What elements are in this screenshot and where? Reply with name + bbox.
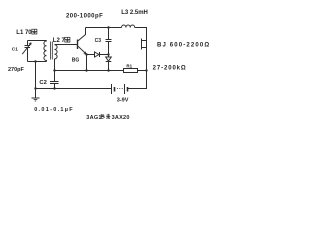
ground — [32, 89, 40, 102]
capacitor C1 — [22, 41, 31, 62]
svg-text:C3: C3 — [95, 38, 102, 44]
svg-text:L3 2.5mH: L3 2.5mH — [121, 10, 148, 16]
svg-text:270pF: 270pF — [8, 67, 25, 73]
svg-text:BJ 600-2200Ω: BJ 600-2200Ω — [157, 42, 210, 48]
wire mid rail — [55, 70, 124, 72]
wire ground rail — [36, 88, 112, 90]
label C3 — [95, 38, 102, 44]
label C2 — [39, 80, 46, 86]
node mid rail D2 — [107, 69, 109, 71]
inductor L2 — [55, 45, 58, 71]
svg-text:27-200kΩ: 27-200kΩ — [153, 65, 187, 71]
wire tank bottom — [28, 61, 47, 63]
node C2 bottom — [53, 87, 55, 89]
wire top rail right — [135, 28, 147, 39]
label L3 value — [121, 10, 148, 16]
node ground rail left — [34, 87, 36, 89]
wire top rail left — [86, 27, 122, 29]
transformer core — [51, 42, 53, 60]
svg-text:200-1000pF: 200-1000pF — [66, 14, 103, 20]
label battery value — [117, 97, 129, 103]
transistor BG — [78, 28, 87, 55]
label R1 value — [153, 65, 187, 71]
wire right rail down — [128, 71, 147, 89]
wire tank to ground rail — [35, 62, 37, 89]
wire L2 to base — [55, 44, 78, 46]
svg-text:3-9V: 3-9V — [117, 97, 129, 103]
inductor L1 — [44, 41, 47, 62]
resistor R1 — [124, 69, 147, 73]
diode D2 — [106, 55, 112, 71]
capacitor C3 — [106, 28, 112, 55]
label C1 value — [8, 67, 25, 73]
svg-text:C2: C2 — [39, 80, 46, 86]
label C1 — [12, 46, 18, 52]
node mid rail right — [145, 69, 147, 71]
svg-text:R1: R1 — [126, 63, 132, 68]
svg-text:BG: BG — [72, 57, 80, 63]
label BG — [72, 57, 80, 63]
label BJ value — [157, 42, 210, 48]
label C3 value — [66, 14, 103, 20]
wire emitter to D1 — [87, 54, 95, 56]
label L2 value — [53, 37, 70, 44]
wire emitter down — [86, 55, 88, 71]
svg-text:3AG1: 3AG1 — [86, 115, 101, 121]
svg-text:3AX20: 3AX20 — [112, 115, 130, 121]
diode D1 — [95, 52, 109, 57]
label C2 value — [34, 107, 74, 113]
node mid rail C2 — [53, 69, 55, 71]
earphone BJ — [142, 39, 147, 71]
label L1 value — [16, 29, 37, 36]
label transistor type — [86, 114, 129, 121]
capacitor C2 — [50, 71, 59, 89]
svg-text:0.01-0.1µF: 0.01-0.1µF — [34, 107, 74, 113]
svg-text:L2 7: L2 7 — [53, 38, 66, 44]
node detector — [107, 53, 109, 55]
node mid rail emitter — [85, 69, 87, 71]
battery 3-9V — [112, 84, 128, 94]
node emitter — [85, 53, 87, 55]
svg-text:L1 70: L1 70 — [16, 30, 32, 36]
svg-text:C1: C1 — [12, 46, 18, 52]
node C3 top — [107, 26, 109, 28]
inductor L3 — [122, 25, 135, 28]
wire tank top — [28, 40, 47, 42]
label R1 — [126, 63, 132, 68]
node tank-ground junction — [34, 60, 36, 62]
